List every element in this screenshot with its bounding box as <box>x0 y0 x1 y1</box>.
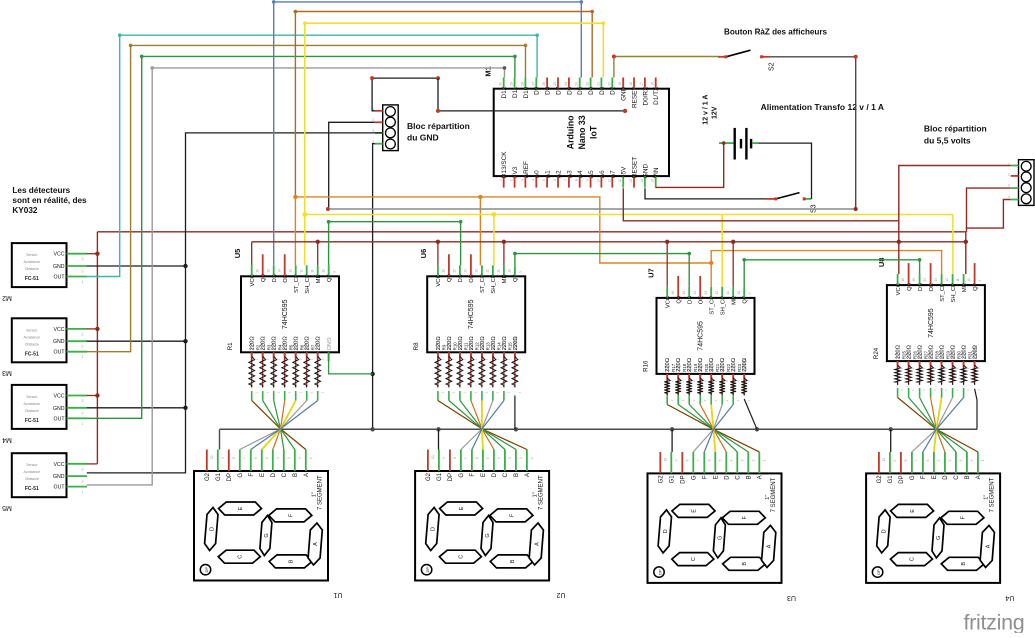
svg-text:Q0: Q0 <box>907 283 913 291</box>
junction U3 G1 <box>670 427 674 431</box>
shift register U8 74HC595 <box>887 285 985 361</box>
svg-text:R2: R2 <box>256 344 261 350</box>
svg-text:7 SEGMENT: 7 SEGMENT <box>538 475 544 510</box>
svg-text:12: 12 <box>715 291 719 295</box>
resistor R25 220&#937; <box>908 361 910 365</box>
svg-text:3: 3 <box>508 457 512 459</box>
svg-text:R23: R23 <box>737 363 742 372</box>
svg-text:7 SEGMENT: 7 SEGMENT <box>317 475 323 510</box>
svg-text:DS: DS <box>688 296 694 304</box>
svg-text:10: 10 <box>967 278 971 282</box>
svg-text:FC-51: FC-51 <box>25 351 39 357</box>
svg-text:OUT: OUT <box>54 416 66 422</box>
svg-text:D5: D5 <box>577 86 584 95</box>
wire GND to Arduino GND pin19 <box>438 78 625 111</box>
svg-text:C: C <box>503 472 509 477</box>
svg-text:B: B <box>293 473 299 477</box>
wire orange upper branch to U8 <box>711 251 941 275</box>
wire segment fan U6-U2 line 5 <box>481 391 483 401</box>
wire GND block pin2 to S2 net <box>329 122 375 209</box>
svg-text:21: 21 <box>596 82 600 86</box>
svg-text:6: 6 <box>475 457 479 459</box>
junction U6 MR <box>502 240 506 244</box>
svg-text:E: E <box>714 475 720 479</box>
junction VCC M2 <box>95 252 99 256</box>
svg-text:D7: D7 <box>555 86 562 95</box>
svg-text:26: 26 <box>542 82 546 86</box>
svg-text:Obstacle: Obstacle <box>25 267 39 271</box>
svg-text:B: B <box>747 475 753 479</box>
svg-text:R31: R31 <box>967 350 972 359</box>
wire segment fan U6-U2 line 2 <box>448 391 450 401</box>
svg-text:DP: DP <box>425 567 430 573</box>
IR sensor M4 FC-51 <box>12 385 67 429</box>
resistor R29 220&#937; <box>952 361 954 365</box>
wire 5.5V pin3 to bus <box>967 188 1011 232</box>
svg-text:G: G <box>936 536 942 540</box>
svg-text:14: 14 <box>640 179 644 183</box>
junction GND bus display <box>370 427 374 431</box>
svg-text:2: 2 <box>970 459 974 461</box>
svg-text:17: 17 <box>640 82 644 86</box>
shift register U7 74HC595 <box>657 298 755 374</box>
svg-text:14: 14 <box>693 291 697 295</box>
svg-text:D11: D11 <box>512 86 519 98</box>
svg-text:U8: U8 <box>877 258 886 268</box>
svg-text:A1: A1 <box>545 170 552 178</box>
resistor R20 220&#937; <box>710 374 712 378</box>
switch S2 bouton RaZ <box>718 56 726 58</box>
svg-text:D3: D3 <box>599 86 606 95</box>
svg-text:Obstacle: Obstacle <box>25 409 39 413</box>
wire segment fan U6-U2 line 3 <box>459 391 461 401</box>
svg-text:24: 24 <box>564 82 568 86</box>
wire segment fan U5-U1 line 7 <box>317 391 319 401</box>
svg-text:C: C <box>909 557 915 561</box>
svg-text:R5: R5 <box>289 344 294 350</box>
resistor R21 220&#937; <box>721 374 723 378</box>
svg-text:3: 3 <box>287 457 291 459</box>
wire segment fan U7-U3 line 7 <box>732 395 734 405</box>
wire D2 to S2 (olive) <box>614 57 718 78</box>
svg-text:4: 4 <box>531 179 535 181</box>
svg-text:VCC: VCC <box>896 283 902 295</box>
svg-text:DS: DS <box>458 274 464 282</box>
wire Arduino GND to S3 <box>645 188 766 199</box>
svg-text:R20: R20 <box>704 363 709 372</box>
svg-text:G: G <box>485 533 491 537</box>
svg-text:11: 11 <box>607 179 611 183</box>
svg-text:DP: DP <box>681 475 687 483</box>
svg-text:GND: GND <box>53 264 65 270</box>
svg-text:Avoidance: Avoidance <box>23 335 40 339</box>
svg-text:5: 5 <box>542 179 546 181</box>
svg-text:R11: R11 <box>464 342 469 350</box>
svg-text:5: 5 <box>486 457 490 459</box>
svg-text:B: B <box>289 559 295 563</box>
svg-text:A: A <box>534 542 540 546</box>
svg-text:F: F <box>921 475 927 479</box>
svg-text:9: 9 <box>586 179 590 181</box>
svg-text:1: 1 <box>82 422 84 426</box>
svg-text:ST_CP: ST_CP <box>940 283 946 302</box>
svg-text:12V: 12V <box>712 106 719 119</box>
svg-text:11: 11 <box>310 269 314 273</box>
7-segment display U3 <box>648 473 782 583</box>
svg-text:12 v / 1 A: 12 v / 1 A <box>703 95 710 125</box>
wire segment fan U8-U4 line 2 <box>908 388 910 398</box>
svg-text:3: 3 <box>959 459 963 461</box>
wire yellow drop U8 SH_CP <box>952 215 954 275</box>
resistor R8 220&#937; <box>437 352 439 356</box>
svg-text:G1: G1 <box>437 472 443 481</box>
svg-text:Sensor: Sensor <box>26 328 38 332</box>
svg-text:FC-51: FC-51 <box>25 276 39 282</box>
svg-text:A3: A3 <box>566 170 573 178</box>
IR sensor M5 FC-51 <box>12 453 67 497</box>
junction U8 MR <box>964 240 968 244</box>
svg-text:9: 9 <box>442 457 446 459</box>
wire orange drop U7 ST_CP <box>710 263 712 287</box>
svg-text:G: G <box>238 473 244 478</box>
svg-text:Avoidance: Avoidance <box>23 260 40 264</box>
junction U7 GND drop <box>755 427 759 431</box>
svg-text:C: C <box>736 475 742 480</box>
svg-text:6: 6 <box>553 179 557 181</box>
svg-text:D8: D8 <box>545 86 552 95</box>
svg-text:16: 16 <box>442 269 446 273</box>
svg-text:E: E <box>692 509 698 513</box>
svg-text:3: 3 <box>82 332 84 336</box>
svg-text:B: B <box>742 562 748 566</box>
svg-text:2: 2 <box>82 345 84 349</box>
svg-text:D: D <box>430 527 436 531</box>
wire 5.5V pin4 branch <box>966 200 1011 229</box>
junction U6 GND drop <box>514 427 518 431</box>
svg-text:25: 25 <box>553 82 557 86</box>
svg-text:10: 10 <box>596 179 600 183</box>
svg-text:AREF: AREF <box>523 161 530 178</box>
svg-text:D2: D2 <box>610 86 617 95</box>
svg-text:MR: MR <box>732 296 738 305</box>
svg-text:Q0: Q0 <box>261 274 267 282</box>
svg-text:220Ω: 220Ω <box>973 344 979 359</box>
svg-text:3: 3 <box>1008 184 1010 188</box>
svg-text:G: G <box>459 473 465 478</box>
wire segment fan U7-U3 line 5 <box>710 395 712 405</box>
wire segment fan U8-U4 line 5 <box>941 388 943 398</box>
svg-text:9: 9 <box>675 459 679 461</box>
svg-text:6: 6 <box>708 459 712 461</box>
svg-text:10: 10 <box>431 455 435 459</box>
svg-text:Sensor: Sensor <box>26 253 38 257</box>
svg-text:13: 13 <box>288 269 292 273</box>
svg-text:10: 10 <box>508 269 512 273</box>
svg-text:R7: R7 <box>311 344 316 350</box>
resistor R11 220&#937; <box>470 352 472 356</box>
svg-text:Alimentation Transfo 12 v / 1: Alimentation Transfo 12 v / 1 A <box>761 102 884 112</box>
svg-text:3: 3 <box>741 459 745 461</box>
wire segment fan U5-U1 line 5 <box>295 391 297 401</box>
junction U7 VCC <box>665 240 669 244</box>
svg-text:15: 15 <box>912 278 916 282</box>
svg-text:13: 13 <box>475 269 479 273</box>
svg-text:R24: R24 <box>873 347 880 359</box>
svg-text:9: 9 <box>893 459 897 461</box>
svg-text:GND: GND <box>53 406 65 412</box>
wire 5.5V bus horizontal <box>97 231 966 233</box>
resistor R24 220&#937; <box>897 361 899 365</box>
wire GND block pin1 loop <box>372 78 438 111</box>
wire U5 GND to bus <box>328 352 330 361</box>
svg-text:R30: R30 <box>956 350 961 359</box>
svg-text:R6: R6 <box>300 344 305 350</box>
junction yellow U5 <box>302 212 307 217</box>
svg-text:R14: R14 <box>497 342 502 351</box>
svg-text:2: 2 <box>82 411 84 415</box>
svg-text:E: E <box>910 509 916 513</box>
svg-text:DS: DS <box>918 283 924 291</box>
svg-text:3V3: 3V3 <box>512 166 519 178</box>
junction U2 G1 <box>436 427 440 431</box>
svg-text:D10: D10 <box>523 86 530 98</box>
svg-text:OUT: OUT <box>54 350 66 356</box>
svg-text:GND: GND <box>325 337 331 350</box>
svg-text:DS: DS <box>272 274 278 282</box>
svg-text:S2: S2 <box>769 62 776 71</box>
svg-text:12: 12 <box>299 269 303 273</box>
svg-text:G: G <box>692 475 698 480</box>
svg-text:IoT: IoT <box>588 125 598 139</box>
svg-text:D12: D12 <box>501 86 508 98</box>
svg-text:D: D <box>881 529 887 533</box>
svg-text:DP: DP <box>204 567 209 573</box>
svg-text:SH_CP: SH_CP <box>721 296 727 315</box>
battery BT1 12V transfo <box>734 128 736 160</box>
svg-text:sont en réalité, des: sont en réalité, des <box>12 196 87 205</box>
svg-text:VCC: VCC <box>54 394 65 400</box>
svg-text:22: 22 <box>586 82 590 86</box>
resistor R12 220&#937; <box>481 352 483 356</box>
svg-text:E: E <box>459 506 465 510</box>
svg-text:74HC595: 74HC595 <box>282 299 289 329</box>
svg-text:R17: R17 <box>671 363 676 372</box>
wire M4 OUT to D11 (green) <box>87 56 515 418</box>
resistor R10 220&#937; <box>459 352 461 356</box>
shift register U6 74HC595 <box>427 276 525 352</box>
wire D4 (brown) <box>295 12 592 197</box>
svg-text:2: 2 <box>519 457 523 459</box>
resistor R4 220&#937; <box>284 352 286 356</box>
svg-text:M5: M5 <box>2 504 12 511</box>
svg-text:VCC: VCC <box>54 252 65 258</box>
resistor R31 220&#937; <box>974 361 976 365</box>
svg-text:Bouton RàZ des afficheurs: Bouton RàZ des afficheurs <box>724 28 827 37</box>
svg-text:5: 5 <box>265 457 269 459</box>
svg-text:3: 3 <box>82 467 84 471</box>
resistor R14 220&#937; <box>503 352 505 356</box>
svg-text:3: 3 <box>520 179 524 181</box>
svg-text:R13: R13 <box>486 342 491 351</box>
svg-text:E: E <box>238 506 244 510</box>
svg-text:MR: MR <box>502 274 508 283</box>
svg-text:du GND: du GND <box>407 133 439 143</box>
svg-text:15: 15 <box>651 179 655 183</box>
wire M5 OUT to D12 (grey) <box>87 68 505 485</box>
wire M3 VCC <box>87 328 98 330</box>
svg-text:Q7: Q7 <box>327 274 333 282</box>
svg-text:R1: R1 <box>227 342 234 350</box>
svg-text:ST_CP: ST_CP <box>294 274 300 293</box>
svg-text:D: D <box>209 527 215 531</box>
svg-text:8: 8 <box>575 179 579 181</box>
svg-text:15: 15 <box>682 291 686 295</box>
svg-text:9: 9 <box>978 280 982 282</box>
wire segment fan U5-U1 line 2 <box>262 391 264 401</box>
resistor R23 220&#937; <box>743 374 745 378</box>
resistor R7 220&#937; <box>317 352 319 356</box>
svg-text:2: 2 <box>298 457 302 459</box>
wire M4 GND <box>87 407 186 409</box>
wire M4 VCC <box>87 395 98 397</box>
resistor R19 220&#937; <box>699 374 701 378</box>
wire segment fan U7-U3 line 6 <box>721 395 723 405</box>
svg-text:4: 4 <box>1008 195 1010 199</box>
wire segment fan U5-U1 line 3 <box>273 391 275 401</box>
svg-text:Bloc répartition: Bloc répartition <box>407 121 470 131</box>
svg-text:Obstacle: Obstacle <box>25 477 39 481</box>
resistor R28 220&#937; <box>941 361 943 365</box>
wire segment fan U6-U2 line 1 <box>437 391 439 401</box>
svg-text:7: 7 <box>697 459 701 461</box>
svg-text:G2: G2 <box>426 472 432 481</box>
svg-text:R21: R21 <box>715 363 720 372</box>
svg-text:R8: R8 <box>413 342 420 350</box>
wire U5 Q7 to U6 DS <box>329 222 461 266</box>
svg-text:Bloc répartition: Bloc répartition <box>924 124 987 134</box>
svg-text:R15: R15 <box>508 342 513 351</box>
svg-text:A: A <box>758 475 764 479</box>
svg-text:D: D <box>663 529 669 533</box>
svg-text:B: B <box>510 559 516 563</box>
wire grey S2 bus <box>328 208 856 210</box>
resistor R3 220&#937; <box>273 352 275 356</box>
wire U1 G1 drop <box>219 429 221 449</box>
svg-text:1: 1 <box>82 490 84 494</box>
svg-text:U6: U6 <box>419 249 428 259</box>
svg-text:G2: G2 <box>877 475 883 484</box>
svg-text:13: 13 <box>704 291 708 295</box>
connector J2 Bloc repartition du 5,5 volts <box>1019 160 1035 206</box>
svg-text:74HC595: 74HC595 <box>698 321 705 351</box>
svg-text:G2: G2 <box>205 472 211 481</box>
svg-text:D9: D9 <box>534 86 541 95</box>
svg-text:14: 14 <box>923 278 927 282</box>
junction U5 MR <box>316 240 320 244</box>
svg-text:11: 11 <box>726 291 730 295</box>
svg-text:D1/TX: D1/TX <box>653 86 660 105</box>
svg-text:E: E <box>260 473 266 477</box>
svg-text:12: 12 <box>486 269 490 273</box>
svg-text:4: 4 <box>948 459 952 461</box>
svg-text:30: 30 <box>499 82 503 86</box>
svg-text:M4: M4 <box>2 436 12 443</box>
svg-text:A5: A5 <box>588 170 595 178</box>
svg-text:9: 9 <box>221 457 225 459</box>
svg-text:12: 12 <box>945 278 949 282</box>
svg-text:R27: R27 <box>923 350 928 359</box>
svg-text:220Ω: 220Ω <box>316 336 322 351</box>
svg-text:A: A <box>313 542 319 546</box>
svg-text:OE: OE <box>699 296 705 305</box>
svg-text:M3: M3 <box>2 369 12 376</box>
wire segment fan U6-U2 line 4 <box>470 391 472 401</box>
svg-text:D4: D4 <box>588 86 595 95</box>
svg-text:27: 27 <box>531 82 535 86</box>
svg-text:D6: D6 <box>566 86 573 95</box>
wire D5 to U5 DS (blue) <box>274 2 582 265</box>
wire yellow drop U6 SH_CP <box>493 215 495 266</box>
svg-text:G: G <box>264 533 270 537</box>
svg-text:10: 10 <box>737 291 741 295</box>
svg-text:Arduino: Arduino <box>565 115 575 149</box>
wire segment fan U8-U4 line 6 <box>952 388 954 398</box>
svg-text:C: C <box>237 555 243 559</box>
wire segment fan U5-U1 line 1 <box>251 391 253 401</box>
svg-text:5: 5 <box>937 459 941 461</box>
svg-text:2: 2 <box>510 179 514 181</box>
svg-text:E: E <box>932 475 938 479</box>
wire segment fan U6-U2 line 6 <box>492 391 494 401</box>
svg-text:15: 15 <box>266 269 270 273</box>
svg-text:R9: R9 <box>442 344 447 350</box>
svg-text:2: 2 <box>752 459 756 461</box>
svg-text:A2: A2 <box>555 170 562 178</box>
svg-text:G1: G1 <box>670 475 676 484</box>
wire M3 OUT to D10 (brown) <box>87 45 526 351</box>
svg-text:10: 10 <box>210 455 214 459</box>
svg-text:220Ω: 220Ω <box>513 336 519 351</box>
svg-text:8: 8 <box>904 459 908 461</box>
svg-text:1": 1" <box>312 492 318 497</box>
svg-text:R18: R18 <box>682 363 687 372</box>
junction U8 VCC <box>897 240 901 244</box>
junction yellow U6 <box>492 212 497 217</box>
svg-text:3: 3 <box>82 399 84 403</box>
svg-text:1: 1 <box>309 457 313 459</box>
resistor R1 220&#937; <box>251 352 253 356</box>
wire M2 OUT to D9 (teal) <box>87 35 537 276</box>
wire M5 VCC <box>87 463 98 465</box>
svg-text:220Ω: 220Ω <box>742 357 748 372</box>
svg-text:F: F <box>470 473 476 477</box>
svg-text:7 SEGMENT: 7 SEGMENT <box>989 477 995 512</box>
svg-text:14: 14 <box>464 269 468 273</box>
wire VCC-MR bus <box>252 241 966 243</box>
resistor R5 220&#937; <box>295 352 297 356</box>
svg-text:GND: GND <box>642 164 649 179</box>
wire segment fan U5-U1 line 4 <box>284 391 286 401</box>
svg-text:A: A <box>985 544 991 548</box>
svg-text:14: 14 <box>277 269 281 273</box>
svg-text:OE: OE <box>469 274 475 283</box>
resistor R13 220&#937; <box>492 352 494 356</box>
svg-text:4: 4 <box>497 457 501 459</box>
wire U5 VCC <box>251 242 253 265</box>
resistor R22 220&#937; <box>732 374 734 378</box>
svg-text:GND: GND <box>53 339 65 345</box>
svg-text:13: 13 <box>934 278 938 282</box>
